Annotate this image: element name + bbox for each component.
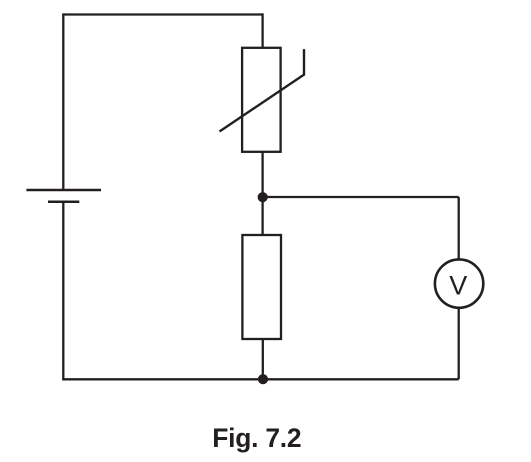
node A: junction dot (thermistor/resistor/voltmeter): [258, 192, 268, 202]
wire: left branch upper (battery top to top rail): [62, 15, 64, 191]
voltmeter: circle: [435, 259, 483, 307]
wire: right branch upper (to voltmeter top): [458, 197, 460, 259]
wire: left branch lower (battery bottom to bottom rail): [62, 202, 64, 379]
wire: thermistor bottom to node A: [261, 152, 263, 197]
thermistor: diagonal stroke with top hook: [220, 49, 305, 131]
resistor: rectangle body: [242, 235, 281, 339]
node B: junction dot (bottom rail): [258, 374, 268, 384]
battery cell: short plate (negative): [48, 201, 79, 204]
svg-text:Fig. 7.2: Fig. 7.2: [212, 423, 301, 453]
wire: node A to resistor top: [261, 197, 263, 235]
svg-text:V: V: [449, 271, 467, 301]
wire: node A to right branch: [263, 196, 459, 198]
thermistor: rectangle body: [242, 48, 281, 152]
wire: top rail: [62, 13, 262, 15]
battery cell: long plate (positive): [26, 189, 101, 192]
wire: right branch lower (voltmeter bottom to bottom rail): [458, 308, 460, 379]
wire: bottom rail: [62, 378, 459, 380]
wire: top rail down to thermistor top: [261, 13, 263, 47]
wire: resistor bottom to node B: [262, 339, 264, 379]
